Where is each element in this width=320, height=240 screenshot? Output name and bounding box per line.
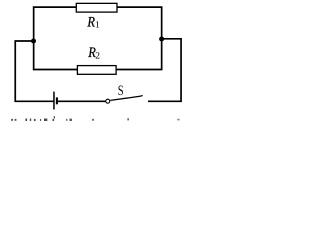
wire right: branch arm, outer right side, bottom run to switch contact [148,39,181,102]
node junction left (dot) [31,39,36,44]
label R2 [87,45,100,61]
switch S: pivot circle [106,99,110,103]
svg-text:1: 1 [95,20,100,30]
resistor R2 [77,66,116,75]
svg-text:S: S [118,83,124,99]
label R1 [87,14,100,30]
wire bottom middle (battery to switch pivot) [57,100,106,102]
svg-text:2: 2 [95,52,100,62]
wire upper loop: top side, left and right verticals, R2 branch stubs [34,7,162,69]
switch S: lever arm (open) [110,96,142,101]
battery cell: short plate (negative) [56,97,58,104]
node junction right (dot) [159,37,164,42]
wire left: branch arm, outer left side, bottom run to battery [15,41,54,101]
resistor R1 [76,3,117,12]
svg-text:R: R [87,14,96,30]
cropped caption text fragments along bottom edge [11,116,180,121]
battery cell: long plate (positive) [53,92,55,110]
